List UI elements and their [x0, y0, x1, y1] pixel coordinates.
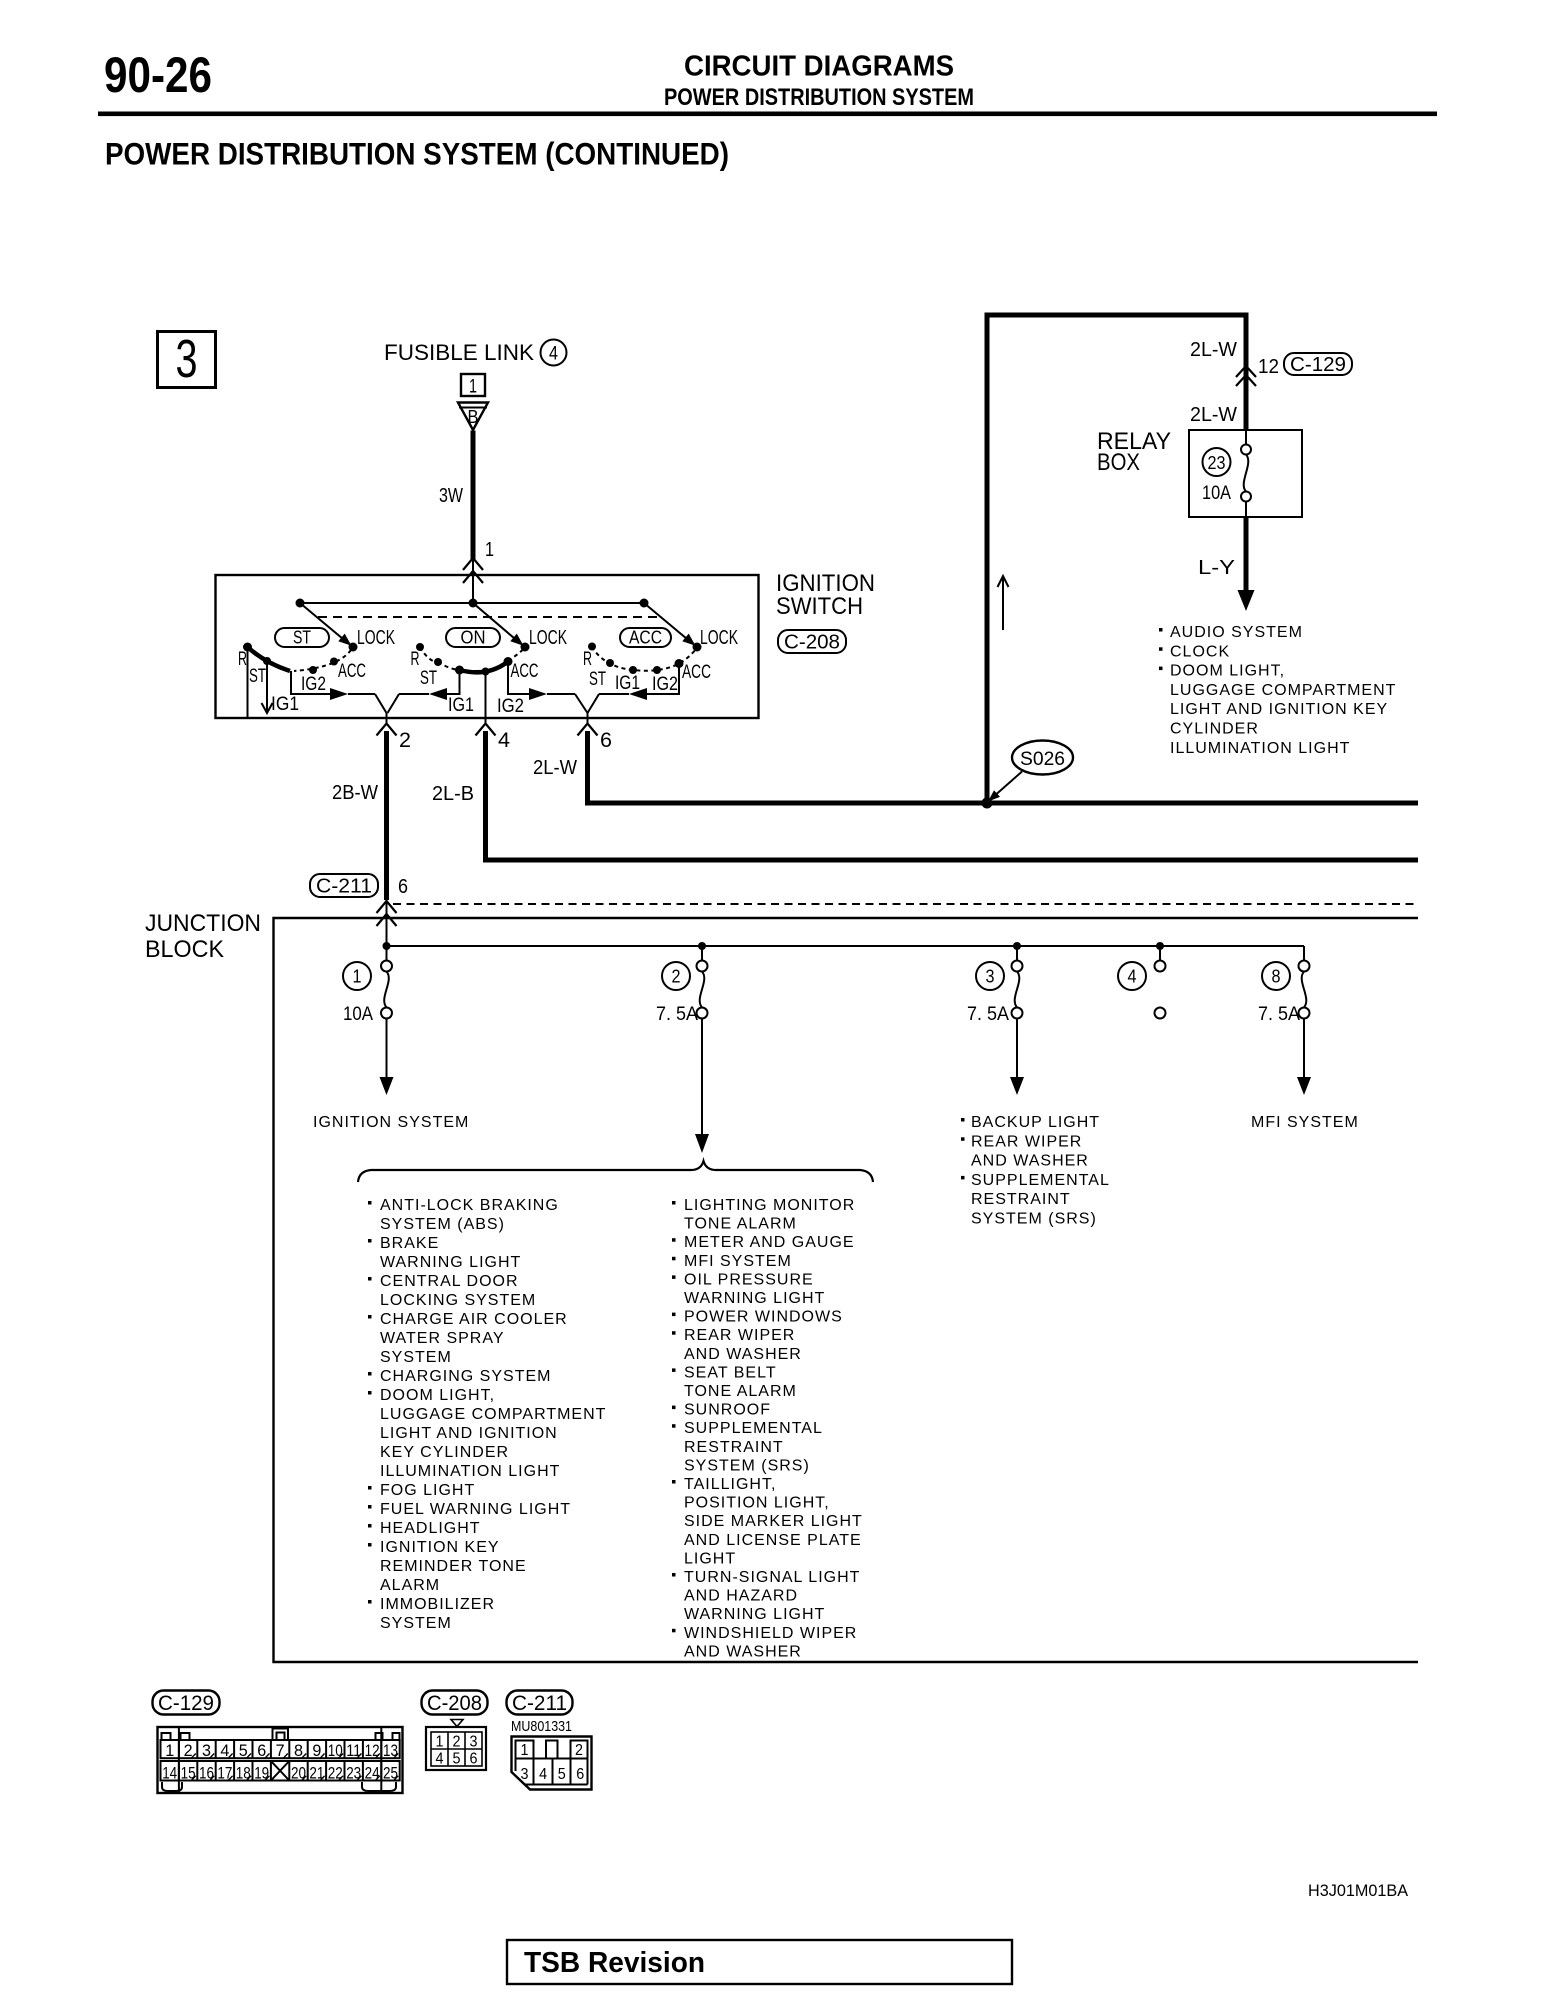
svg-text:BLOCK: BLOCK	[145, 936, 224, 963]
svg-text:LIGHT AND IGNITION KEY: LIGHT AND IGNITION KEY	[1170, 701, 1388, 718]
connector C-211 body	[512, 1737, 592, 1790]
svg-text:POWER DISTRIBUTION SYSTEM (CON: POWER DISTRIBUTION SYSTEM (CONTINUED)	[105, 136, 729, 172]
svg-text:2L-W: 2L-W	[1190, 404, 1237, 426]
bus tap node at x=1017	[1013, 942, 1021, 950]
svg-text:C-129: C-129	[158, 1692, 214, 1715]
svg-text:POWER DISTRIBUTION SYSTEM: POWER DISTRIBUTION SYSTEM	[664, 84, 974, 111]
svg-text:4: 4	[220, 1742, 229, 1760]
fuse rating 10A	[1202, 483, 1231, 504]
bank2 IG1 output wire with arrow	[388, 670, 475, 716]
current direction arrow (up)	[998, 576, 1009, 630]
bank2 IG2 output wire with arrow	[497, 662, 588, 718]
svg-text:IG1: IG1	[271, 694, 299, 715]
wire label 2L-W above connector	[1190, 339, 1237, 361]
svg-text:ST: ST	[589, 669, 606, 690]
connector tag C-211 (pinout)	[507, 1691, 573, 1716]
svg-text:IG1: IG1	[615, 673, 640, 694]
svg-text:TONE ALARM: TONE ALARM	[684, 1383, 797, 1400]
svg-text:4: 4	[549, 344, 558, 365]
svg-text:12: 12	[365, 1742, 380, 1760]
svg-text:S026: S026	[1020, 749, 1065, 770]
svg-text:WARNING LIGHT: WARNING LIGHT	[684, 1290, 825, 1307]
relay box label	[1097, 428, 1171, 476]
bank2 position indicator oval ON	[446, 628, 500, 648]
svg-text:22: 22	[328, 1765, 343, 1783]
fuse 2 load list left column	[368, 1197, 606, 1632]
TSB Revision box	[507, 1940, 1012, 1984]
connector tag C-129	[1284, 353, 1352, 376]
svg-text:8: 8	[294, 1742, 303, 1760]
connector tag C-208 (pinout)	[422, 1691, 488, 1716]
svg-text:ST: ST	[293, 628, 311, 648]
svg-text:25: 25	[383, 1765, 398, 1783]
connector tag C-129 (pinout)	[153, 1691, 220, 1716]
svg-text:ANTI-LOCK BRAKING: ANTI-LOCK BRAKING	[380, 1197, 559, 1214]
svg-text:3: 3	[176, 329, 198, 389]
bus junction node right	[640, 599, 649, 608]
svg-text:MU801331: MU801331	[511, 1718, 572, 1735]
svg-text:FUEL WARNING LIGHT: FUEL WARNING LIGHT	[380, 1501, 571, 1518]
bank1 R contact	[238, 643, 252, 671]
circled 1	[343, 962, 371, 990]
junction block label	[145, 910, 261, 963]
fusible link pin box 1	[461, 374, 485, 398]
svg-text:LIGHTING MONITOR: LIGHTING MONITOR	[684, 1197, 855, 1214]
bank3 R contact	[583, 643, 596, 671]
fuse 1 output arrow to IGNITION SYSTEM	[380, 1019, 394, 1096]
svg-text:JUNCTION: JUNCTION	[145, 910, 261, 937]
fuse 2 rating 7.5A	[656, 1004, 698, 1025]
bus tap node at x=1160	[1156, 942, 1164, 950]
svg-text:4: 4	[539, 1766, 547, 1783]
svg-text:RESTRAINT: RESTRAINT	[971, 1191, 1071, 1208]
svg-text:TSB Revision: TSB Revision	[524, 1947, 705, 1979]
bus junction node center	[469, 599, 478, 608]
bank2 R contact	[411, 643, 425, 670]
svg-text:6: 6	[398, 876, 408, 898]
header rule	[98, 112, 1437, 117]
svg-text:ACC: ACC	[682, 662, 711, 683]
pin number 1 at ignition switch	[485, 539, 494, 561]
svg-text:LOCK: LOCK	[700, 627, 738, 649]
svg-text:CENTRAL DOOR: CENTRAL DOOR	[380, 1273, 519, 1290]
bank3 dashed contact arc	[592, 647, 696, 671]
svg-text:10A: 10A	[343, 1004, 373, 1025]
bank1 feed wire to LOCK contact	[300, 603, 352, 646]
svg-text:HEADLIGHT: HEADLIGHT	[380, 1520, 481, 1537]
svg-text:1: 1	[353, 967, 362, 987]
svg-text:IG2: IG2	[301, 674, 326, 695]
svg-text:AND WASHER: AND WASHER	[971, 1153, 1089, 1170]
wire label 3W	[439, 485, 463, 507]
svg-text:17: 17	[217, 1765, 232, 1783]
bank1 dashed contact arc	[294, 650, 351, 671]
wire label L-Y	[1198, 557, 1235, 579]
svg-text:4: 4	[1128, 967, 1137, 987]
circled 2	[662, 962, 690, 990]
page header: POWER DISTRIBUTION SYSTEM subtitle	[664, 84, 974, 111]
bus tap node at x=386.5	[383, 942, 391, 950]
svg-text:90-26: 90-26	[104, 47, 212, 103]
diagram number box 3	[158, 329, 216, 389]
svg-text:TONE ALARM: TONE ALARM	[684, 1216, 797, 1233]
svg-text:IMMOBILIZER: IMMOBILIZER	[380, 1596, 495, 1613]
circled 3	[976, 962, 1004, 990]
svg-text:AND WASHER: AND WASHER	[684, 1346, 802, 1363]
svg-text:WARNING LIGHT: WARNING LIGHT	[380, 1254, 521, 1271]
svg-text:B: B	[468, 407, 479, 427]
svg-text:5: 5	[453, 1751, 461, 1768]
connector tag C-208	[778, 630, 846, 654]
svg-text:16: 16	[199, 1765, 214, 1783]
svg-text:7. 5A: 7. 5A	[967, 1004, 1009, 1025]
circled 23 (fuse number)	[1203, 448, 1231, 476]
svg-text:2B-W: 2B-W	[332, 782, 378, 804]
terminal 2 chevron and pin number	[377, 713, 412, 752]
svg-text:7. 5A: 7. 5A	[656, 1004, 698, 1025]
svg-text:20: 20	[291, 1765, 306, 1783]
svg-text:REAR WIPER: REAR WIPER	[971, 1133, 1082, 1150]
svg-text:3: 3	[521, 1766, 529, 1783]
bank3 IG2 contact	[652, 666, 678, 695]
svg-text:15: 15	[181, 1765, 196, 1783]
svg-text:LIGHT AND IGNITION: LIGHT AND IGNITION	[380, 1425, 558, 1442]
svg-text:AND WASHER: AND WASHER	[684, 1643, 802, 1660]
bus tap node at x=702	[698, 942, 706, 950]
bank1 wiper (thick arc)	[248, 647, 291, 671]
connector chevrons at C-211	[377, 901, 397, 926]
mechanical linkage dashed line	[318, 616, 659, 618]
pin number 12	[1258, 356, 1279, 378]
terminal 6 chevron and pin number	[578, 713, 613, 752]
svg-text:SIDE MARKER LIGHT: SIDE MARKER LIGHT	[684, 1513, 863, 1530]
svg-text:ACC: ACC	[511, 661, 539, 682]
bus junction node left	[296, 599, 305, 608]
bank1 IG2 output wire with arrow	[291, 671, 387, 713]
wire 2B-W from terminal 2	[384, 731, 389, 946]
svg-text:L-Y: L-Y	[1198, 557, 1235, 579]
wire 2L-W from terminal 6	[588, 731, 1419, 803]
svg-text:REAR WIPER: REAR WIPER	[684, 1327, 795, 1344]
svg-text:7. 5A: 7. 5A	[1258, 1004, 1300, 1025]
ignition switch box	[216, 575, 759, 718]
connector chevrons at ignition switch pin 1	[463, 558, 483, 583]
page header: page number 90-26	[104, 47, 212, 103]
bank2 wiper (thick arc) IG1-IG2	[460, 662, 509, 673]
connector C-208 body	[426, 1720, 486, 1771]
svg-text:RESTRAINT: RESTRAINT	[684, 1439, 784, 1456]
svg-text:1: 1	[521, 1742, 529, 1759]
bank3 ACC output wire with arrow	[588, 664, 680, 714]
svg-text:1: 1	[436, 1734, 444, 1751]
svg-text:BRAKE: BRAKE	[380, 1235, 439, 1252]
svg-text:FUSIBLE LINK: FUSIBLE LINK	[384, 340, 534, 365]
svg-text:SWITCH: SWITCH	[776, 593, 863, 620]
bank1 ST contact	[249, 657, 271, 687]
svg-text:KEY CYLINDER: KEY CYLINDER	[380, 1444, 509, 1461]
svg-text:IGNITION SYSTEM: IGNITION SYSTEM	[313, 1114, 469, 1131]
svg-text:C-208: C-208	[784, 632, 840, 654]
fuse 1 (10A)	[381, 946, 392, 1019]
svg-text:ST: ST	[249, 666, 266, 687]
bank2 dashed contact arcs	[420, 647, 524, 670]
svg-text:12: 12	[1258, 356, 1279, 378]
svg-text:1: 1	[165, 1742, 174, 1760]
svg-text:DOOM LIGHT,: DOOM LIGHT,	[1170, 663, 1285, 680]
connector chevrons at C-129 pin 12	[1236, 366, 1256, 386]
fuse 4 (empty position)	[1155, 946, 1166, 1019]
wire 3W (battery feed)	[471, 431, 476, 604]
S026 pointer arrow	[988, 772, 1022, 802]
svg-text:2L-B: 2L-B	[432, 783, 474, 805]
svg-text:ON: ON	[461, 628, 486, 648]
bank3 feed wire to LOCK contact	[644, 603, 696, 646]
fuse 2 load list right column	[672, 1197, 863, 1660]
svg-text:10A: 10A	[1202, 483, 1231, 504]
bank2 feed wire to LOCK contact	[473, 603, 524, 646]
pin number 6 at C-211	[398, 876, 408, 898]
connector C-211 part number MU801331	[511, 1718, 572, 1735]
svg-text:C-211: C-211	[512, 1692, 567, 1715]
wire label 2B-W	[332, 782, 378, 804]
fuse 2 output arrow to brace list	[695, 1019, 709, 1154]
svg-text:SYSTEM: SYSTEM	[380, 1349, 452, 1366]
fusible link label	[384, 340, 534, 365]
svg-text:ILLUMINATION LIGHT: ILLUMINATION LIGHT	[380, 1463, 560, 1480]
svg-text:POWER WINDOWS: POWER WINDOWS	[684, 1309, 843, 1326]
drawing number H3J01M01BA	[1308, 1881, 1409, 1900]
circled 8	[1262, 962, 1290, 990]
connector tag C-211	[310, 874, 378, 898]
svg-text:2: 2	[184, 1742, 193, 1760]
svg-text:10: 10	[328, 1742, 343, 1760]
svg-text:ALARM: ALARM	[380, 1577, 440, 1594]
svg-text:2: 2	[453, 1734, 461, 1751]
svg-text:6: 6	[600, 729, 612, 752]
svg-text:24: 24	[365, 1765, 380, 1783]
bank2 wiper drop wire to terminal 4	[485, 671, 487, 716]
svg-text:SUNROOF: SUNROOF	[684, 1402, 771, 1419]
svg-text:2: 2	[575, 1742, 583, 1759]
fuse 8 (7.5A)	[1299, 946, 1310, 1019]
svg-text:IGNITION KEY: IGNITION KEY	[380, 1539, 500, 1556]
bank3 IG1 contact	[615, 666, 640, 694]
svg-text:6: 6	[470, 1751, 478, 1768]
svg-text:R: R	[583, 649, 592, 670]
svg-text:14: 14	[162, 1765, 177, 1783]
circled 4 (fusible link number)	[541, 340, 567, 366]
bank1 ACC contact	[330, 658, 366, 683]
svg-text:3: 3	[986, 967, 995, 987]
section title POWER DISTRIBUTION SYSTEM (CONTINUED)	[105, 136, 729, 172]
svg-text:LUGGAGE COMPARTMENT: LUGGAGE COMPARTMENT	[1170, 682, 1396, 699]
junction block outline	[274, 918, 1419, 1662]
svg-text:SYSTEM (SRS): SYSTEM (SRS)	[684, 1457, 810, 1474]
svg-text:SYSTEM (SRS): SYSTEM (SRS)	[971, 1211, 1097, 1228]
svg-text:ACC: ACC	[629, 628, 662, 648]
svg-text:LOCKING SYSTEM: LOCKING SYSTEM	[380, 1292, 536, 1309]
bank2 wiper tap node	[482, 668, 490, 676]
bank1 ST drop wire with arrow	[262, 661, 300, 715]
load label MFI SYSTEM	[1251, 1114, 1359, 1131]
svg-text:LUGGAGE COMPARTMENT: LUGGAGE COMPARTMENT	[380, 1406, 606, 1423]
battery feed triangle B	[458, 403, 488, 431]
svg-text:MFI SYSTEM: MFI SYSTEM	[684, 1253, 792, 1270]
node S026 junction dot	[982, 798, 993, 809]
page header: CIRCUIT DIAGRAMS title	[684, 51, 954, 83]
svg-text:C-129: C-129	[1290, 354, 1346, 376]
svg-text:21: 21	[309, 1765, 324, 1783]
svg-text:WARNING LIGHT: WARNING LIGHT	[684, 1606, 825, 1623]
svg-text:4: 4	[436, 1751, 444, 1768]
junction block dashed boundary	[393, 903, 1418, 905]
fuse 3 rating 7.5A	[967, 1004, 1009, 1025]
svg-text:ACC: ACC	[338, 661, 366, 682]
svg-text:8: 8	[1272, 967, 1281, 987]
svg-text:23: 23	[1208, 453, 1226, 473]
svg-text:AND HAZARD: AND HAZARD	[684, 1588, 798, 1605]
fuse 3 (7.5A)	[1012, 946, 1023, 1019]
connector C-129 body	[158, 1727, 403, 1793]
svg-text:3: 3	[202, 1742, 211, 1760]
bank3 LOCK contact	[693, 627, 739, 652]
svg-text:5: 5	[558, 1766, 566, 1783]
svg-text:6: 6	[576, 1766, 584, 1783]
fuse 23 element	[1241, 430, 1251, 517]
fuse 8 output arrow to MFI SYSTEM	[1297, 1019, 1311, 1096]
svg-text:2: 2	[399, 729, 411, 752]
svg-text:2L-W: 2L-W	[1190, 339, 1237, 361]
wire L-Y with arrow to loads	[1238, 517, 1255, 611]
svg-text:REMINDER TONE: REMINDER TONE	[380, 1558, 527, 1575]
svg-text:MFI SYSTEM: MFI SYSTEM	[1251, 1114, 1359, 1131]
svg-text:OIL PRESSURE: OIL PRESSURE	[684, 1271, 814, 1288]
svg-text:1: 1	[469, 377, 477, 398]
bank1 LOCK contact	[349, 627, 396, 652]
svg-text:11: 11	[346, 1742, 361, 1760]
svg-text:POSITION LIGHT,: POSITION LIGHT,	[684, 1495, 830, 1512]
bank3 ACC contact	[675, 659, 712, 683]
svg-text:R: R	[238, 649, 247, 670]
bank3 ST contact	[589, 659, 614, 690]
svg-text:2: 2	[672, 967, 681, 987]
junction block bus wire	[387, 945, 1305, 947]
svg-text:19: 19	[254, 1765, 269, 1783]
svg-text:4: 4	[498, 729, 510, 752]
svg-text:WATER SPRAY: WATER SPRAY	[380, 1330, 505, 1347]
distribution brace	[358, 1161, 873, 1182]
bank1 R drop wire	[247, 647, 249, 717]
bank2 ST contact	[420, 658, 442, 689]
svg-text:BACKUP LIGHT: BACKUP LIGHT	[971, 1114, 1100, 1131]
relay load list	[1159, 624, 1396, 757]
svg-text:CLOCK: CLOCK	[1170, 643, 1230, 660]
terminal 4 chevron and pin number	[476, 713, 511, 752]
relay box outline	[1189, 430, 1302, 517]
svg-text:IG2: IG2	[497, 696, 524, 717]
svg-text:SYSTEM (ABS): SYSTEM (ABS)	[380, 1216, 505, 1233]
svg-text:1: 1	[485, 539, 494, 561]
wire from S026 up and over to relay box	[987, 315, 1246, 803]
svg-text:3W: 3W	[439, 485, 463, 507]
fuse 8 rating 7.5A	[1258, 1004, 1300, 1025]
svg-text:TURN-SIGNAL LIGHT: TURN-SIGNAL LIGHT	[684, 1569, 860, 1586]
bank3 position indicator oval ACC	[620, 628, 671, 648]
svg-text:IG1: IG1	[448, 695, 474, 716]
svg-text:LOCK: LOCK	[357, 627, 395, 649]
svg-text:3: 3	[470, 1734, 478, 1751]
svg-text:LIGHT: LIGHT	[684, 1550, 736, 1567]
ignition switch label	[776, 570, 875, 620]
svg-text:C-211: C-211	[316, 876, 372, 898]
svg-text:2L-W: 2L-W	[533, 757, 577, 779]
svg-text:H3J01M01BA: H3J01M01BA	[1308, 1881, 1409, 1900]
svg-text:CYLINDER: CYLINDER	[1170, 721, 1259, 738]
svg-text:DOOM LIGHT,: DOOM LIGHT,	[380, 1387, 495, 1404]
splice label S026	[1012, 741, 1073, 775]
wire label 2L-B	[432, 783, 474, 805]
svg-text:BOX: BOX	[1097, 449, 1140, 476]
svg-text:IG2: IG2	[652, 674, 678, 695]
ignition switch internal bus wire	[300, 602, 644, 604]
bank2 LOCK contact	[521, 627, 568, 652]
svg-text:6: 6	[257, 1742, 266, 1760]
wire 2L-B from terminal 4	[486, 731, 1419, 860]
connector C-129 pin grid	[161, 1727, 400, 1793]
wire label 2L-W at terminal 6	[533, 757, 577, 779]
svg-text:18: 18	[236, 1765, 251, 1783]
svg-text:C-208: C-208	[427, 1692, 482, 1715]
fuse 3 load list	[961, 1114, 1110, 1228]
bank1 IG2 contact	[301, 666, 326, 695]
svg-text:5: 5	[239, 1742, 248, 1760]
fuse 1 rating 10A	[343, 1004, 373, 1025]
fuse 2 (7.5A)	[697, 946, 708, 1019]
fuse 3 output arrow	[1010, 1019, 1024, 1096]
svg-text:13: 13	[383, 1742, 398, 1760]
svg-text:23: 23	[346, 1765, 361, 1783]
svg-text:AND LICENSE PLATE: AND LICENSE PLATE	[684, 1532, 862, 1549]
svg-text:FOG LIGHT: FOG LIGHT	[380, 1482, 475, 1499]
svg-text:ILLUMINATION LIGHT: ILLUMINATION LIGHT	[1170, 740, 1350, 757]
svg-text:7: 7	[276, 1742, 285, 1760]
circled 4 (junction block)	[1118, 962, 1146, 990]
svg-text:SYSTEM: SYSTEM	[380, 1615, 452, 1632]
svg-text:CIRCUIT DIAGRAMS: CIRCUIT DIAGRAMS	[684, 51, 954, 83]
bank1 position indicator oval ST	[275, 628, 329, 648]
svg-text:TAILLIGHT,: TAILLIGHT,	[684, 1476, 776, 1493]
svg-text:9: 9	[312, 1742, 321, 1760]
svg-text:SUPPLEMENTAL: SUPPLEMENTAL	[971, 1172, 1110, 1189]
svg-text:ST: ST	[420, 668, 437, 689]
bank2 ACC contact	[504, 657, 539, 682]
svg-text:SUPPLEMENTAL: SUPPLEMENTAL	[684, 1420, 823, 1437]
svg-text:R: R	[411, 649, 420, 670]
svg-text:METER AND GAUGE: METER AND GAUGE	[684, 1234, 855, 1251]
load label IGNITION SYSTEM	[313, 1114, 469, 1131]
svg-text:AUDIO SYSTEM: AUDIO SYSTEM	[1170, 624, 1303, 641]
bank2 IG1 contact	[455, 666, 464, 675]
svg-text:CHARGE AIR COOLER: CHARGE AIR COOLER	[380, 1311, 568, 1328]
svg-text:LOCK: LOCK	[529, 627, 567, 649]
svg-text:CHARGING SYSTEM: CHARGING SYSTEM	[380, 1368, 551, 1385]
svg-text:SEAT BELT: SEAT BELT	[684, 1364, 777, 1381]
wire label 2L-W below connector	[1190, 404, 1237, 426]
svg-text:WINDSHIELD WIPER: WINDSHIELD WIPER	[684, 1625, 857, 1642]
